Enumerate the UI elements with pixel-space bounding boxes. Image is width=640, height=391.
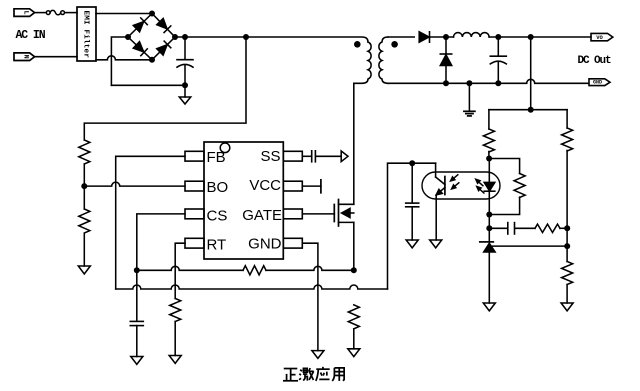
opto light arrow 1 [451,175,458,181]
svg-text:SS: SS [260,148,280,165]
arrow SS test point [341,151,348,162]
node freewheel top [443,34,449,40]
wire VCC stub [302,185,321,187]
wire cap to ground [184,85,186,97]
wire inductor to VO terminal [489,36,591,38]
svg-text:N: N [22,55,29,59]
wire R2 to ground [83,234,85,266]
wire FB return line (hops over CS, RT, GND, source verticals) [116,285,388,289]
capacitor C4 CS filter [130,321,143,325]
wire secondary top to rectifier diode [388,36,414,38]
opto light arrow 2 [452,183,459,189]
svg-text:EMI Filter: EMI Filter [82,11,90,59]
node bridge left [125,34,131,40]
wire EMI to bridge bottom node (hop over vertical) [96,56,152,60]
IC pin 1 mark [220,143,230,153]
svg-text:GND: GND [248,236,282,253]
node return rail ground stub [466,80,472,86]
svg-text:RT: RT [207,237,227,254]
resistor R1 (BO divider upper) [79,140,90,164]
wire RT resistor to ground [174,322,176,356]
wire bridge right to main rail [175,37,368,42]
svg-text:AC IN: AC IN [16,29,46,42]
pin CS box [185,209,204,219]
wire FB line up to optocoupler [388,163,436,289]
bridge diode D4 (bottom-right) [157,41,171,55]
node output cap top [495,34,501,40]
wire BO line (hop over FB vertical) [84,182,185,186]
connector L terminal [14,9,35,17]
svg-text:VO: VO [596,34,603,41]
connector N terminal [14,53,35,61]
wire source resistor to ground [353,329,355,349]
capacitor C3 soft start [312,151,316,162]
node compensation tap [486,225,492,231]
ground opto cap [406,240,418,248]
optocoupler U2 body [422,172,500,199]
wire RT pin to left [175,243,185,298]
bridge diode D1 (top-left) [133,18,147,32]
node source [351,267,357,273]
node bridge top [149,11,155,17]
wire EMI to bridge top node [96,13,152,15]
wire GATE to MOSFET [302,213,334,215]
wire fuse to EMI filter [65,12,77,14]
ground TL431 [483,303,495,311]
svg-text:BO: BO [207,179,229,196]
wire R1 to node [83,164,85,209]
wire N to EMI filter [35,56,77,58]
resistor R2 (BO divider lower) [79,209,90,233]
node main rail startup tap [243,34,249,40]
wire sense resistor to source node [266,266,354,270]
bridge diode D3 (bottom-left) [133,42,147,56]
pin SS box [283,151,302,161]
wire divider lower to ground [566,285,568,304]
fuse F1 [46,10,64,14]
svg-text:GND: GND [593,79,602,85]
inductor L1 [454,33,490,37]
node LED anode [486,156,492,162]
wire L to fuse [35,12,46,14]
VCC terminator bar [320,180,322,193]
title 正激应用 [283,367,344,381]
pin FB box [185,151,204,161]
wire SS cap to arrow [316,155,341,157]
transistor Q1 MOSFET [334,200,354,227]
node output cap bottom [495,80,501,86]
opto LED arrow 2 [477,187,484,193]
svg-text:VCC: VCC [249,177,281,194]
node CS [134,267,140,273]
wire SS pin to soft-start cap [302,155,311,157]
transformer T1 secondary winding [379,37,388,83]
bridge diode D2 (top-right) [157,18,171,32]
node divider comp [564,225,570,231]
pin GND box [283,238,302,248]
wire GND pin [302,243,318,350]
ground BO divider [78,266,90,274]
resistor R7 parallel LED [489,159,525,215]
node bridge bottom [149,57,155,63]
node VO sense tap [528,34,534,40]
terminal GND out [589,79,610,86]
pin GATE box [283,209,302,219]
node BO divider tap [81,183,87,189]
svg-text:FB: FB [207,149,226,166]
transformer T1 primary winding [354,42,371,83]
ground divider [561,303,573,311]
ground RT [169,356,181,364]
node LED cathode [486,212,492,218]
bridge rectifier diamond edges [128,14,175,60]
pin VCC box [283,181,302,191]
capacitor C2 output [490,37,506,83]
wire feedback top rail [489,109,567,111]
wire CS cap to ground [136,326,138,357]
wire ground stub [468,83,470,111]
transformer primary phase dot [354,41,361,48]
resistor R9 divider upper [562,110,573,262]
pin RT box [185,238,204,248]
resistor R10 divider lower [562,262,573,285]
wire CS sense line (hops over RT and GND verticals) [137,266,243,270]
resistor R8 compensation [535,224,560,232]
svg-text:GATE: GATE [242,207,282,224]
diode D6 freewheeling [440,37,451,83]
opto phototransistor [436,163,445,240]
node bottom rail cap [182,82,188,88]
wire negative bottom rail [111,84,185,86]
svg-text:L: L [22,11,29,15]
wire drain to transformer primary [353,83,355,204]
transformer secondary phase dot [391,41,398,48]
node opto filter cap [409,160,415,166]
wire bridge left to negative rail [111,37,128,85]
EMI filter block [77,7,96,61]
diode D5 output rectifier [419,32,429,42]
resistor R4 RT timing [170,299,181,322]
wire diode to inductor [430,36,454,38]
pin BO box [185,181,204,191]
wire VO tap down to feedback [530,37,532,110]
node divider ref [564,243,570,249]
ground opto emitter [430,240,442,248]
resistor R3 sense [243,266,266,275]
wire secondary return rail (hop over sense vertical) [388,79,589,83]
ground CS [131,357,143,365]
resistor R5 source [348,305,359,329]
wire CS pin to left [137,214,185,321]
capacitor C6 compensation [489,223,535,234]
opto LED [484,159,495,229]
node main rail at bulk cap [182,34,188,40]
ground secondary [464,111,475,116]
capacitor C1 bulk [177,37,193,85]
ground IC GND [312,351,324,359]
capacitor C5 opto filter [406,163,419,240]
wire FB pin to left [116,156,185,289]
ground primary [179,97,190,104]
node feedback top [528,107,534,113]
IC U1 body [204,142,283,259]
opto LED arrow 1 [476,179,483,185]
svg-text:DC Out: DC Out [578,55,612,67]
svg-text:CS: CS [207,208,228,225]
ground source [348,349,360,357]
node bridge right [172,34,178,40]
wire startup tap down and left to divider [84,37,246,140]
wire TL431 ref to divider tap [493,245,568,247]
wire compensation to divider tap [560,227,567,229]
shunt regulator U3 TL431 [480,228,495,303]
node freewheel bottom [443,80,449,86]
wire source down to sense node [353,222,355,270]
resistor R6 upper feedback [483,110,494,159]
terminal VO [591,33,613,40]
